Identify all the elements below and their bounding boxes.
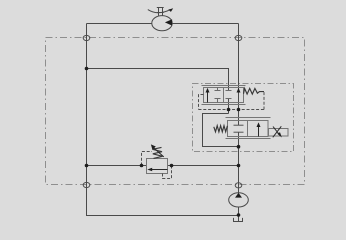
- port: top-left boundary port: [83, 35, 90, 40]
- valve V1: right box closed port T symbols: [226, 91, 232, 99]
- valve V2: spring (left): [214, 126, 228, 132]
- motor M1: flow triangle (pointing left): [165, 19, 172, 25]
- motor M1: hydraulic motor ellipse: [152, 16, 172, 31]
- valve V2: proportional solenoid box: [269, 129, 289, 137]
- wire: top line from left riser to motor: [87, 23, 152, 25]
- valve V1: pilot line left (dashed): [199, 95, 204, 110]
- valve V3: adjustment arrow: [153, 147, 164, 157]
- port: top-right boundary port: [235, 35, 242, 40]
- enclosure: outer assembly boundary (dash-dot box): [46, 38, 305, 185]
- junction: pilot node A: [227, 108, 231, 112]
- wire: pump to tank: [238, 207, 240, 222]
- valve V1: left box flow arrow (up): [207, 90, 209, 103]
- junction: pilot node B: [237, 108, 241, 112]
- junction: tank line: [237, 213, 241, 217]
- valve V2: solenoid cross arrow: [273, 126, 282, 137]
- pump P1: flow triangle (pointing up): [235, 193, 242, 198]
- pump P1: ellipse: [229, 193, 249, 207]
- valve V3: spring (top, slanted zigzag): [153, 147, 163, 158]
- valve V2: left box closed port T symbols: [234, 125, 244, 132]
- junction: left riser / relief line: [85, 164, 89, 168]
- wire: right vertical main pressure line (upper part): [238, 24, 240, 126]
- valve V3: drain line right (dashed): [163, 166, 172, 179]
- valve V1: right box flow arrow (up): [237, 88, 241, 93]
- junction: relief drain right: [170, 164, 174, 168]
- valve V1: left box closed port T symbols: [215, 88, 221, 103]
- valve V2: right box flow arrow (up): [258, 124, 260, 137]
- valve V3: relief/reducing valve body: [147, 159, 168, 174]
- valve V3: pilot line left (dashed): [142, 152, 153, 166]
- valve V1: pilot line right riser (dashed): [263, 92, 265, 110]
- valve V1: upper 2-position valve body: [202, 86, 246, 105]
- wire: left vertical return line: [87, 24, 239, 216]
- junction: main line / bypass loop: [237, 145, 241, 149]
- wire: upper valve bottom port down to pilot node: [228, 99, 230, 114]
- wire: right vertical main pressure line (lower part): [238, 132, 240, 193]
- junction: relief pilot left: [140, 164, 144, 168]
- wire: relief branch line: [87, 165, 239, 167]
- port: bottom-right boundary port: [235, 183, 242, 188]
- valve V3: internal flow arrow (left): [149, 169, 168, 171]
- valve V1: spring (right): [244, 88, 265, 94]
- wire: branch at y=68 to upper valve port: [87, 69, 229, 91]
- enclosure: inner valve-block boundary (dash-dot box): [193, 84, 294, 152]
- tank T1: reservoir symbol: [234, 218, 243, 222]
- port: bottom-left boundary port: [83, 182, 90, 187]
- junction: main line / relief line: [237, 164, 241, 168]
- valve V1: pilot line bottom (dashed): [199, 109, 265, 111]
- motor M1: rotation arc arrow: [148, 10, 170, 13]
- motor M1: shaft/fan symbol: [157, 8, 164, 16]
- wire: bypass loop around lower valve: [203, 114, 239, 147]
- valve V2: lower 2-position valve body: [226, 118, 271, 139]
- junction: left riser / branch: [85, 67, 89, 71]
- wire: top line from motor to right riser: [172, 23, 238, 25]
